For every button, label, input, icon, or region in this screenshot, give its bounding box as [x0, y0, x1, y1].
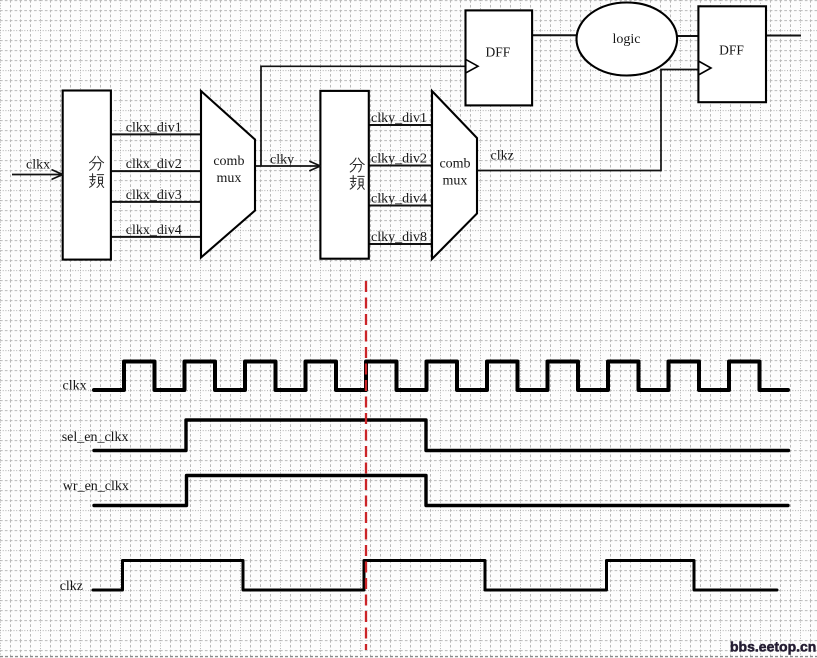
svg-text:clky: clky [270, 153, 294, 168]
svg-text:clkx_div2: clkx_div2 [126, 157, 182, 172]
svg-text:clky_div8: clky_div8 [371, 230, 427, 245]
svg-text:clkx_div4: clkx_div4 [126, 223, 182, 238]
svg-text:clky_div4: clky_div4 [371, 192, 427, 207]
svg-text:sel_en_clkx: sel_en_clkx [62, 430, 129, 445]
svg-text:wr_en_clkx: wr_en_clkx [63, 479, 129, 494]
svg-text:clkz: clkz [60, 579, 83, 594]
svg-text:clkx_div3: clkx_div3 [126, 188, 182, 203]
svg-text:mux: mux [216, 171, 241, 186]
svg-text:mux: mux [443, 174, 468, 189]
svg-text:DFF: DFF [486, 45, 511, 60]
svg-text:clky_div1: clky_div1 [371, 111, 427, 126]
svg-text:clkx: clkx [26, 158, 50, 173]
svg-text:clkz: clkz [491, 149, 514, 164]
svg-text:clkx_div1: clkx_div1 [126, 120, 182, 135]
svg-text:clkx: clkx [63, 379, 87, 394]
svg-text:logic: logic [613, 32, 641, 47]
svg-text:DFF: DFF [719, 43, 744, 58]
svg-text:clky_div2: clky_div2 [371, 152, 427, 167]
svg-text:bbs.eetop.cn: bbs.eetop.cn [730, 639, 816, 655]
svg-text:comb: comb [439, 157, 470, 172]
svg-text:comb: comb [213, 154, 244, 169]
